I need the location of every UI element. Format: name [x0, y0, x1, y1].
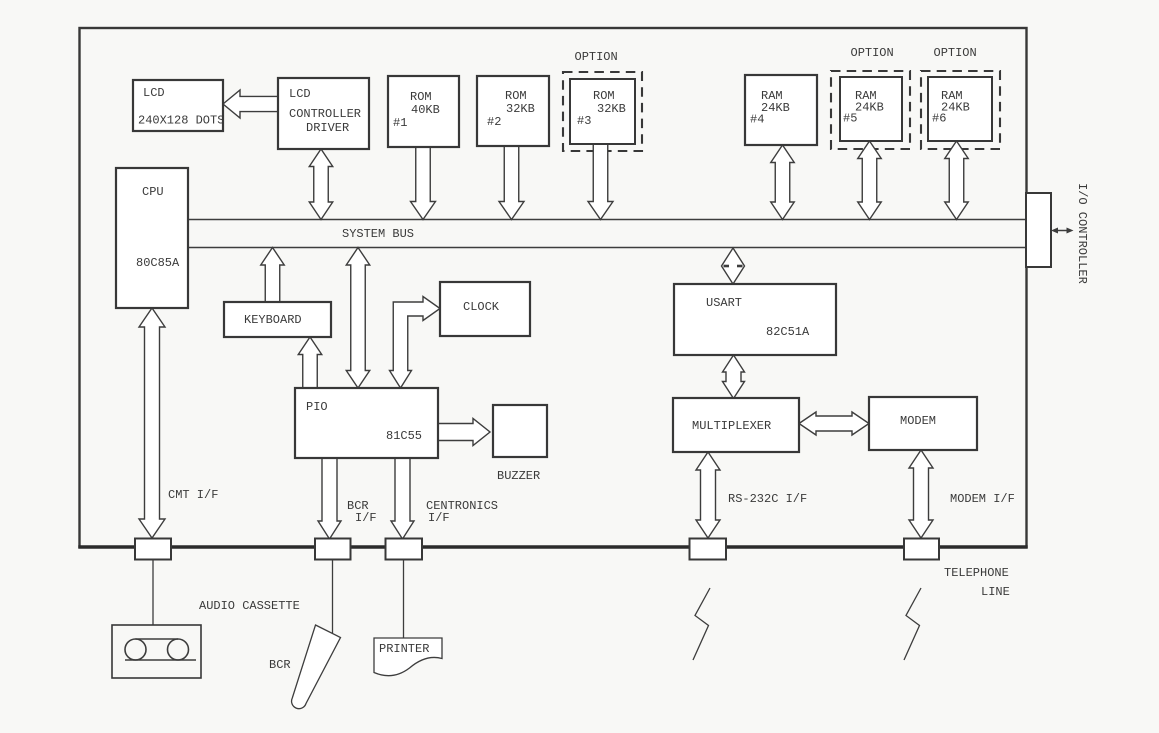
box: RAM #6 (option)	[928, 77, 992, 141]
box: CPU 80C85A	[116, 168, 188, 308]
icon: audio cassette	[112, 625, 201, 678]
arrow: CPU <-> CMT connector	[139, 308, 165, 538]
svg-text:OPTION: OPTION	[575, 50, 618, 64]
svg-text:USART: USART	[706, 296, 742, 310]
arrow: RAM #5 <-> bus	[858, 141, 882, 220]
connector: BCR	[315, 539, 351, 560]
connector: telephone/modem	[904, 539, 939, 560]
svg-text:24KB: 24KB	[761, 101, 790, 115]
svg-text:#1: #1	[393, 116, 407, 130]
svg-text:PRINTER: PRINTER	[379, 642, 429, 656]
svg-text:MULTIPLEXER: MULTIPLEXER	[692, 419, 771, 433]
svg-text:OPTION: OPTION	[934, 46, 977, 60]
svg-text:RS-232C I/F: RS-232C I/F	[728, 492, 807, 506]
svg-text:MODEM I/F: MODEM I/F	[950, 492, 1015, 506]
arrow: ROM #3 to bus (down)	[588, 144, 613, 220]
svg-text:ROM: ROM	[505, 89, 527, 103]
arrow: LCD controller <-> system bus	[309, 149, 333, 220]
arrow: PIO <-> clock (L-shaped)	[390, 297, 441, 389]
dashed option outline RAM #6	[921, 71, 1000, 149]
box: ROM #1	[388, 76, 459, 147]
svg-text:#5: #5	[843, 112, 857, 126]
arrow: RAM #6 <-> bus	[945, 141, 969, 220]
svg-text:32KB: 32KB	[597, 102, 626, 116]
box: RAM #4	[745, 75, 817, 145]
arrow: USART <-> multiplexer	[723, 355, 745, 399]
box: buzzer	[493, 405, 547, 457]
svg-text:BUZZER: BUZZER	[497, 469, 540, 483]
arrow: PIO to BCR connector (down)	[318, 458, 341, 539]
outer enclosure frame	[80, 28, 1027, 547]
svg-text:240X128 DOTS: 240X128 DOTS	[138, 114, 224, 128]
svg-text:I/O CONTROLLER: I/O CONTROLLER	[1075, 183, 1089, 284]
arrow: ROM #2 to bus (down)	[499, 146, 524, 220]
wire: Centronics connector to printer paper	[403, 560, 405, 639]
svg-text:LINE: LINE	[981, 585, 1010, 599]
svg-text:PIO: PIO	[306, 400, 328, 414]
svg-text:LCD: LCD	[289, 87, 311, 101]
svg-text:I/F: I/F	[355, 511, 377, 525]
box: LCD display	[133, 80, 223, 131]
svg-text:OPTION: OPTION	[851, 46, 894, 60]
arrow: keyboard to bus (up)	[261, 248, 285, 303]
svg-text:32KB: 32KB	[506, 102, 535, 116]
arrow: bus <-> USART diamond	[722, 248, 745, 284]
svg-text:CONTROLLER: CONTROLLER	[289, 107, 361, 121]
box: modem	[869, 397, 977, 450]
svg-text:BCR: BCR	[269, 658, 291, 672]
connector: CMT	[135, 539, 171, 560]
box: PIO 81C55	[295, 388, 438, 458]
box: ROM #3 (option)	[570, 79, 635, 144]
bottom border thick line	[78, 545, 1027, 549]
connector: RS-232C	[690, 539, 727, 560]
svg-text:CLOCK: CLOCK	[463, 300, 500, 314]
dashed option outline RAM #5	[831, 71, 910, 149]
arrow: PIO to keyboard (up)	[298, 337, 322, 388]
icon: BCR wand	[292, 625, 341, 709]
svg-text:LCD: LCD	[143, 86, 165, 100]
svg-text:AUDIO CASSETTE: AUDIO CASSETTE	[199, 599, 300, 613]
wire: CMT connector to cassette	[152, 560, 154, 626]
box: LCD controller driver	[278, 78, 369, 149]
icon: lightning bolt (RS-232C line)	[693, 588, 710, 660]
box: multiplexer	[673, 398, 799, 452]
box: keyboard	[224, 302, 331, 337]
arrow: modem <-> telephone connector	[909, 450, 933, 538]
box: RAM #5 (option)	[840, 77, 902, 141]
svg-text:81C55: 81C55	[386, 429, 422, 443]
arrow: multiplexer <-> modem	[799, 412, 869, 435]
svg-text:I/F: I/F	[428, 511, 450, 525]
svg-text:CMT I/F: CMT I/F	[168, 488, 218, 502]
svg-text:KEYBOARD: KEYBOARD	[244, 313, 302, 327]
svg-text:#2: #2	[487, 115, 501, 129]
box: clock	[440, 282, 530, 336]
svg-text:DRIVER: DRIVER	[306, 121, 349, 135]
box: USART 82C51A	[674, 284, 836, 355]
svg-text:80C85A: 80C85A	[136, 256, 180, 270]
svg-text:SYSTEM BUS: SYSTEM BUS	[342, 227, 414, 241]
wire: BCR connector to wand	[332, 560, 334, 634]
svg-text:#4: #4	[750, 113, 764, 127]
connector: Centronics	[386, 539, 423, 560]
svg-text:#3: #3	[577, 114, 591, 128]
arrow: I/O controller external (double-headed)	[1053, 230, 1071, 232]
box: I/O controller tab	[1026, 193, 1051, 267]
svg-text:MODEM: MODEM	[900, 414, 936, 428]
svg-text:TELEPHONE: TELEPHONE	[944, 566, 1009, 580]
wire: system bus top line	[188, 219, 1026, 221]
dashed option outline ROM #3	[563, 72, 642, 151]
svg-text:ROM: ROM	[410, 90, 432, 104]
arrow: multiplexer <-> RS-232C connector	[696, 452, 720, 538]
svg-text:ROM: ROM	[593, 89, 615, 103]
svg-text:CPU: CPU	[142, 185, 164, 199]
svg-text:82C51A: 82C51A	[766, 325, 810, 339]
icon: lightning bolt (telephone line)	[904, 588, 921, 660]
svg-text:24KB: 24KB	[855, 101, 884, 115]
svg-text:40KB: 40KB	[411, 103, 440, 117]
arrow: PIO to buzzer (right)	[438, 419, 490, 446]
arrow: RAM #4 <-> bus	[771, 145, 795, 220]
arrow: PIO to Centronics connector (down)	[391, 458, 414, 539]
wire: system bus bottom line	[188, 247, 1026, 249]
svg-text:#6: #6	[932, 112, 946, 126]
arrow: PIO <-> bus	[346, 248, 370, 389]
arrow: ROM #1 to bus (down)	[411, 147, 436, 220]
arrow: LCD controller to LCD (left)	[223, 90, 278, 118]
icon: printer paper	[374, 638, 442, 676]
box: ROM #2	[477, 76, 549, 146]
